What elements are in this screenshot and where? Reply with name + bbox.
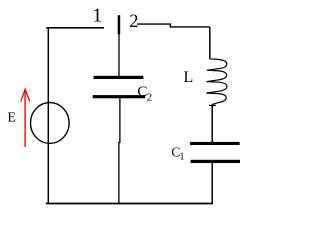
wire: C1 to bottom <box>211 163 213 204</box>
wire: switch pole down to C2 <box>118 34 120 77</box>
wire: bottom horizontal <box>46 203 213 205</box>
wire: contact 2 to top-right corner (with jog) <box>137 24 210 27</box>
emf arrow (red) shaft <box>24 92 26 148</box>
capacitor C1 bottom plate <box>191 160 240 163</box>
capacitor C1 top plate <box>190 142 240 145</box>
emf arrow (red) head <box>21 89 30 101</box>
svg-text:1: 1 <box>92 5 102 27</box>
wire: right upper vertical (to inductor) <box>209 27 211 59</box>
svg-text:2: 2 <box>147 91 153 103</box>
wire: left vertical <box>47 27 49 203</box>
wire: inductor to C1 <box>211 104 213 142</box>
svg-text:2: 2 <box>129 12 138 32</box>
wire: top-left horizontal (source to contact 1) <box>46 27 104 29</box>
wire: C2 down to bottom wire <box>119 98 120 204</box>
svg-text:1: 1 <box>180 151 185 162</box>
switch S1 blade (thick vertical bar) <box>118 15 121 34</box>
inductor bottom tick <box>209 104 216 106</box>
inductor L coil <box>206 59 227 105</box>
capacitor C2 top plate <box>94 76 144 79</box>
svg-text:E: E <box>7 110 16 125</box>
svg-text:L: L <box>184 69 194 86</box>
source E circle <box>31 103 70 144</box>
capacitor C2 bottom plate <box>93 95 146 98</box>
